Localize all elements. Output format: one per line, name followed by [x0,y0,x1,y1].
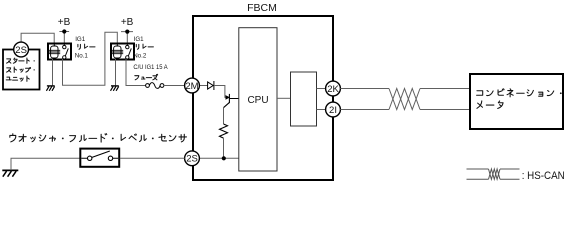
label C/U IG1 15 A fuse [133,64,168,80]
connector 2I (FBCM) [326,102,341,117]
wire connector 2M to diode D1 [199,85,207,87]
svg-text:CPU: CPU [247,95,268,106]
fuse C/U IG1 15A [146,83,164,89]
washer fluid level switch [80,149,119,167]
wire ground to washer switch [11,158,80,170]
svg-text:2M: 2M [185,81,198,92]
svg-text:+B: +B [58,17,71,28]
combination meter box [470,74,563,129]
wire washer switch to connector 2S [120,157,185,159]
diode D1 [208,81,214,90]
svg-text:2K: 2K [327,84,339,95]
svg-text:No.2: No.2 [133,52,147,59]
svg-text:C/U IG1 15 A: C/U IG1 15 A [133,64,168,71]
washer fluid level sensor label [10,134,187,142]
svg-text:+B: +B [121,17,134,28]
FBCM module box [193,16,333,180]
wire relay No.1 switch to relay No.2 coil [63,32,118,85]
wire +B bar to relay No.1 switch [59,32,69,45]
wire fuse to connector 2M [164,85,185,87]
legend twisted pair glyph [467,169,520,179]
wire CAN-H 2K to combination meter [340,88,389,90]
wire twisted pair to meter (CAN-H) [420,88,470,90]
svg-text:2S: 2S [15,45,27,56]
connector 2S (FBCM) [185,151,200,166]
wire transceiver to connector 2K [317,88,327,90]
combination meter label [477,89,562,109]
connector 2K (FBCM) [326,81,341,96]
svg-text:2I: 2I [329,105,337,116]
svg-text:2S: 2S [186,154,198,165]
start-stop unit label (start stop unit) [6,58,35,81]
wire transistor collector to resistor [223,108,225,125]
label IG1 relay No.2 [133,36,153,60]
wire CAN-L 2I to combination meter [340,109,389,111]
wire relay No.1 coil to ground [52,59,54,85]
svg-text:IG1: IG1 [75,36,86,43]
wire CPU to CAN transceiver [277,97,291,99]
svg-text:IG1: IG1 [134,36,145,43]
connector 2S (start-stop unit) [14,42,29,57]
wire diode to transistor emitter [214,86,227,98]
label IG1 relay No.1 [75,36,95,60]
wire transceiver to connector 2I [317,109,327,111]
relay: IG1 relay No.2 [111,44,134,60]
resistor R1 (pull-down) [220,124,228,138]
wire connector 2S to CPU [199,157,239,159]
svg-text:: HS-CAN: : HS-CAN [522,170,565,182]
junction dot +B No.1 [62,29,66,33]
junction dot +B No.2 [125,30,129,34]
wire start-stop unit to IG1 relay No.1 coil [21,33,54,44]
junction dot resistor / 2S line [222,156,226,160]
transistor Q1 (PNP) [224,94,239,108]
relay: IG1 relay No.1 [48,44,71,60]
wire relay No.2 coil to ground [115,59,117,85]
ground (relay No.2 coil) [111,86,119,91]
connector 2M (FBCM) [185,78,200,93]
wire relay No.2 switch to fuse [126,59,146,86]
ground (washer sensor) [2,170,18,176]
start-stop unit box [3,50,40,90]
wire +B bar to relay No.2 switch [121,32,133,44]
wire resistor to 2S line [223,138,225,158]
ground (relay No.1 coil) [46,86,54,91]
svg-text:No.1: No.1 [75,52,89,59]
CAN transceiver block [291,72,317,126]
CPU block [239,28,277,171]
svg-text:FBCM: FBCM [247,2,277,14]
twisted pair (HS-CAN) [389,89,420,110]
wire twisted pair to meter (CAN-L) [420,109,470,111]
